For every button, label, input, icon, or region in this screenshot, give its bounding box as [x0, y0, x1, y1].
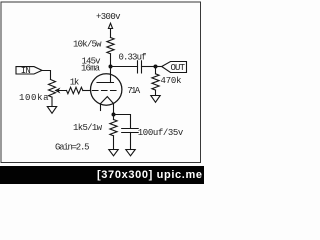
node plate junction	[109, 65, 113, 69]
svg-text:+300v: +300v	[96, 12, 121, 22]
resistor R2 470k	[152, 74, 159, 90]
svg-text:10k/5w: 10k/5w	[73, 40, 102, 50]
svg-text:100uf/35v: 100uf/35v	[138, 128, 184, 138]
wire capacitor to out node	[142, 66, 156, 68]
ground under 470k	[151, 96, 160, 103]
wire cathode node down	[113, 115, 115, 120]
svg-text:470k: 470k	[161, 76, 182, 86]
watermark bar	[0, 166, 204, 184]
wire resistor to plate node	[110, 54, 112, 67]
tube filament	[101, 97, 114, 104]
wire pot to ground	[51, 97, 53, 106]
power arrow B+	[108, 23, 112, 37]
tube plate	[97, 82, 114, 84]
connector IN flag	[16, 67, 42, 74]
capacitor C1 0.33uf	[138, 61, 142, 73]
node out junction	[154, 65, 158, 69]
wire cap to ground	[130, 133, 132, 150]
svg-text:100ka: 100ka	[19, 93, 49, 103]
potentiometer R3 100ka	[49, 80, 56, 98]
tube U1 71A envelope	[91, 74, 122, 105]
svg-text:[370x300] upic.me: [370x300] upic.me	[97, 169, 202, 181]
svg-text:Gain=2.5: Gain=2.5	[55, 143, 90, 153]
svg-text:OUT: OUT	[171, 63, 186, 73]
pot wiper arrow	[56, 89, 67, 92]
wire plate lead	[110, 67, 112, 83]
wire cathode node to cap	[114, 115, 131, 129]
svg-text:1k: 1k	[70, 78, 80, 88]
border frame	[1, 2, 201, 163]
resistor R5 1k5/1w	[110, 120, 117, 136]
tube grid dashed	[93, 90, 119, 92]
svg-text:16ma: 16ma	[81, 64, 101, 74]
capacitor C2 100uf/35v	[122, 129, 139, 133]
wire out node to flag	[156, 66, 162, 68]
svg-text:71A: 71A	[127, 86, 141, 96]
wire filament left lead	[100, 104, 102, 111]
ground under cap	[126, 150, 135, 156]
wire cathode lead	[113, 104, 115, 115]
resistor R1 10k/5w	[107, 38, 114, 54]
resistor R4 1k	[67, 87, 83, 93]
ground under 1k5	[109, 150, 118, 156]
connector OUT flag	[162, 62, 187, 73]
node cathode junction	[112, 113, 116, 117]
wire 1k to grid	[83, 90, 91, 92]
ground under pot	[47, 107, 56, 114]
svg-text:1k5/1w: 1k5/1w	[73, 123, 103, 133]
svg-text:IN: IN	[21, 66, 31, 76]
wire out node to 470k	[155, 67, 157, 74]
wire IN to pot	[42, 71, 51, 80]
wire plate node to capacitor	[111, 66, 138, 68]
wire 470k to ground	[155, 90, 157, 95]
wire 1k5 to ground	[113, 136, 115, 150]
svg-text:0.33uf: 0.33uf	[119, 52, 147, 62]
